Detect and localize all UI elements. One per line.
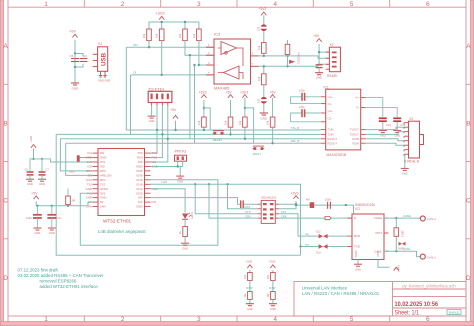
wire left riser B [60,139,92,171]
svg-text:GND: GND [86,187,92,191]
svg-text:C7: C7 [46,168,50,172]
svg-text:GND2: GND2 [100,187,108,191]
svg-text:C13: C13 [386,123,391,127]
+5V arrow (R11) [270,95,275,98]
svg-text:IO0: IO0 [138,160,143,164]
pin header TO-FTDI [148,86,172,106]
svg-text:V+: V+ [355,96,359,100]
svg-text:TX0: TX0 [152,151,158,155]
svg-text:RX2: RX2 [86,178,92,182]
pin header X2 [326,43,341,78]
svg-text:R2OUT: R2OUT [328,141,338,145]
wire R1IN to RJ45 [366,139,404,141]
svg-text:10.02.2025 10:56: 10.02.2025 10:56 [395,301,439,308]
wire IC2 vcc [296,205,354,214]
svg-text:IO5: IO5 [87,165,92,169]
wire isolator vcc [279,201,296,209]
svg-text:SJ2: SJ2 [257,98,261,103]
svg-text:RXD: RXD [354,234,360,238]
driver triangle [221,42,237,55]
svg-text:C6: C6 [25,168,29,172]
svg-text:TX2: TX2 [100,182,106,186]
svg-text:EN: EN [100,151,104,155]
svg-text:GND: GND [260,117,268,121]
svg-text:GND: GND [247,307,253,311]
resistor R9 [230,100,232,117]
pushbutton S2 [253,146,265,156]
svg-text:GND: GND [27,182,33,186]
receiver triangle [224,66,240,79]
svg-text:IO2: IO2 [152,200,157,204]
svg-text:LnB diameter angepasst: LnB diameter angepasst [98,229,146,234]
TVS D2 [298,230,348,239]
frame column ticks bottom [8,316,466,322]
svg-text:10k: 10k [257,76,261,81]
svg-text:RX0: RX0 [137,156,143,160]
pin stubs IC3 [206,47,259,75]
svg-text:IO35: IO35 [136,191,143,195]
svg-text:X2: X2 [330,43,334,47]
ground (LED) [181,243,189,245]
svg-text:+3V3: +3V3 [397,265,401,272]
svg-text:EN: EN [88,174,92,178]
svg-text:+5V: +5V [69,30,76,34]
frame row labels [3,43,471,282]
wire DE net [195,41,215,144]
ground (IC2) [354,260,362,272]
svg-text:GND: GND [177,179,183,183]
resistor R6 (B bias) [262,74,267,85]
svg-text:IO12: IO12 [136,187,143,191]
IC module U1 WT32-ETH01 [86,149,159,224]
svg-text:D: D [354,216,356,220]
ground (col1) [246,304,254,306]
svg-text:LAN: LAN [86,205,92,209]
svg-text:+5V: +5V [170,108,177,112]
svg-text:C1-: C1- [328,102,333,106]
wire CAN rx drop [209,184,258,218]
svg-text:RS485: RS485 [327,74,337,78]
svg-text:GND: GND [402,172,408,176]
svg-text:SL2: SL2 [316,230,321,234]
svg-text:IC3: IC3 [214,32,221,37]
svg-text:+5V: +5V [270,91,277,95]
svg-text:100n: 100n [69,170,75,173]
svg-text:CANH: CANH [403,214,411,218]
capacitor C7 [38,159,49,186]
svg-text:X1: X1 [98,42,102,46]
resistor R8 [203,100,205,117]
svg-text:120Ohm: 120Ohm [296,52,300,64]
svg-text:07.12.2023 first draft: 07.12.2023 first draft [18,268,59,273]
wire bus RXD [66,142,321,144]
resistor R17 [248,292,253,300]
wire CANL [384,251,420,256]
svg-text:DI: DI [134,71,137,75]
op-amp IC1 MAX3232 [321,85,366,157]
wire R2IN to RJ45 [366,143,404,145]
svg-text:100n: 100n [299,89,305,93]
svg-text:IO15: IO15 [244,205,251,209]
svg-text:LAN: LAN [162,180,167,184]
svg-text:+3V3: +3V3 [156,12,165,16]
svg-text:+3V3: +3V3 [29,135,33,142]
svg-text:C2-: C2- [328,117,333,121]
svg-text:IO39: IO39 [136,169,143,173]
resistor R11 [272,98,274,117]
wire FTDI pin3 drop [151,106,163,158]
svg-text:+3V3: +3V3 [240,91,248,95]
wire bus RX0 [56,133,321,135]
svg-text:IO0: IO0 [152,160,157,164]
svg-text:3: 3 [197,316,201,323]
svg-text:C5: C5 [70,54,74,58]
svg-text:T1OUT: T1OUT [350,128,359,132]
wire DI net [131,41,215,75]
ground (B bias) [260,113,268,115]
terminal CAN-1 [420,254,436,259]
resistor R10 [244,98,246,117]
svg-text:10k: 10k [192,33,196,38]
svg-text:BOOT: BOOT [253,152,261,156]
resistor R16 [248,273,253,281]
wire FTDI gnd [151,106,153,116]
svg-text:removed ESP8266: removed ESP8266 [40,279,77,284]
svg-text:TX2: TX2 [87,182,93,186]
svg-text:WT32-ETH01: WT32-ETH01 [103,219,132,224]
svg-text:+5V: +5V [313,34,320,38]
svg-text:IO15: IO15 [136,178,143,182]
solder jumper SJ2 [257,97,268,104]
svg-text:100u: 100u [26,216,32,220]
+5V arrow (R9) [228,95,233,98]
svg-text:T2OUT: T2OUT [350,133,359,137]
svg-text:added WT32-ETH01 interface: added WT32-ETH01 interface [40,284,99,289]
capacitor C1 electrolytic [26,206,42,235]
TVS D4 [398,242,406,251]
resistor R2 [159,29,164,41]
wire LED net [151,189,186,213]
USB connector X1 [93,42,108,71]
svg-text:GND: GND [39,182,45,186]
svg-text:3: 3 [197,1,201,8]
pushbutton S1 [213,131,225,142]
svg-text:03.02.2025 added RS485 + CAN T: 03.02.2025 added RS485 + CAN Tranceiver [18,273,105,278]
svg-text:D: D [3,275,8,282]
svg-text:Sheet: 1/1: Sheet: 1/1 [395,310,420,317]
svg-text:100n: 100n [325,198,331,202]
svg-text:CRX: CRX [281,214,287,218]
svg-text:V-: V- [356,106,359,110]
svg-text:1: 1 [44,1,48,8]
svg-text:ICSP: ICSP [269,286,276,290]
frame left outer bar [1,0,4,326]
solder jumper SJ1 [257,24,268,31]
wire IO4 [151,198,258,205]
svg-text:GND: GND [72,87,80,91]
svg-text:LED1: LED1 [190,212,194,219]
svg-text:R1OUT: R1OUT [328,137,338,141]
capacitor C12 (V+) [366,98,392,138]
svg-text:GND: GND [136,205,142,209]
USB shield pins [99,71,107,77]
svg-text:10k: 10k [257,45,261,50]
svg-text:C15: C15 [400,123,405,127]
capacitor C9 [316,65,323,68]
capacitor C10 (C1 pump) [291,89,321,104]
svg-text:10k: 10k [142,33,146,38]
svg-text:RESET: RESET [213,138,223,142]
capacitor C2 electrolytic [47,206,61,235]
svg-text:4k7: 4k7 [306,198,311,202]
frame column ticks top [8,0,466,7]
op-amp IC3 MAX485 [206,32,259,91]
+3V3 arrow (col2) [269,259,276,272]
+5V supply arrow (USB) [72,34,77,37]
svg-text:GND: GND [100,196,106,200]
wire FTDI pin2 drop [151,106,158,153]
wire CAN tx/rx right [279,214,352,236]
svg-text:C: C [466,198,471,205]
resistor R19 [271,292,276,300]
svg-text:IO1: IO1 [87,151,92,155]
svg-text:+3V3: +3V3 [291,192,299,196]
svg-text:RX0: RX0 [152,156,158,160]
+3V3 arrow (caps rail) [31,145,36,148]
svg-text:R2IN: R2IN [353,141,359,145]
IC5 isolator [244,196,279,224]
capacitor C5 [71,59,79,62]
svg-text:0R: 0R [72,199,75,203]
svg-text:VPLT: VPLT [375,231,382,235]
svg-text:GND: GND [35,231,41,235]
wire left riser A [56,134,300,255]
revision notes [18,268,105,290]
svg-text:+3V3: +3V3 [269,259,276,263]
svg-text:+3V3: +3V3 [199,91,207,95]
pin header PROG [175,149,187,167]
+5V arrow (power) [34,196,39,199]
TVS D3 [299,242,347,255]
svg-text:EAGLE: EAGLE [449,311,459,315]
net flag (CAN D) [325,217,331,220]
svg-text:PROG: PROG [175,149,187,154]
ground (X2) [315,73,323,75]
svg-text:IC2: IC2 [355,207,360,211]
resistor R1 [147,29,152,41]
svg-text:R1IN: R1IN [353,137,359,141]
resistor R5 (A bias) [262,43,267,54]
frame bottom outer bar [1,322,474,326]
wire CANH [384,217,420,219]
capacitor C13 (V-) [366,108,406,138]
svg-text:D: D [466,275,471,282]
svg-text:B: B [466,120,470,127]
svg-text:5: 5 [350,316,354,323]
svg-text:GND: GND [149,119,155,123]
svg-text:3V3: 3V3 [100,191,106,195]
svg-text:ARE_EN: ARE_EN [100,174,112,178]
svg-text:SL3: SL3 [316,250,321,254]
svg-text:120R: 120R [401,231,405,237]
svg-text:DP0: DP0 [100,169,106,173]
wire X2 vcc [319,44,329,64]
wire LAN net [151,184,301,246]
capacitor C14 [241,200,244,208]
svg-text:B: B [3,120,7,127]
svg-text:10k: 10k [266,120,270,125]
+3V3 arrow (R10) [242,95,247,98]
svg-text:ADUM1201: ADUM1201 [261,196,277,200]
ground (RJ45) [401,168,409,170]
svg-text:+3V3: +3V3 [258,7,266,11]
svg-text:+5V: +5V [226,91,233,95]
svg-text:1: 1 [44,316,48,323]
+5V arrow (X2) [317,39,322,42]
wire +3V3 rail [149,22,199,29]
ground (USB filter) [71,83,79,85]
ground (PROG) [176,176,184,178]
svg-text:CTX: CTX [245,210,251,214]
wire left riser C [66,143,93,175]
svg-text:6: 6 [426,316,430,323]
svg-text:GND: GND [316,76,322,80]
ground (col2) [269,304,277,306]
svg-text:10k: 10k [178,33,182,38]
svg-text:CRX: CRX [245,214,251,218]
svg-text:10k: 10k [197,120,201,125]
svg-text:T1IN: T1IN [328,128,334,132]
svg-text:10u: 10u [57,216,62,220]
+3V3 arrow (A bias) [261,12,266,15]
wire T1OUT to RJ45 [366,127,404,129]
IC2 SN65HVD230 [348,203,389,260]
svg-text:2: 2 [121,1,125,8]
svg-text:GND: GND [49,231,55,235]
resistor R14 (series) [310,202,315,208]
svg-text:GND: GND [86,196,92,200]
svg-text:IO17: IO17 [86,169,93,173]
svg-text:CAN-2: CAN-2 [427,217,436,221]
wire bias A [263,15,265,42]
ground (FTDI) [148,116,156,118]
+5V arrow (FTDI) [173,115,178,118]
+3V3 arrow right (IC2 RS) [378,260,401,273]
svg-text:10k: 10k [224,120,228,125]
svg-text:CANH: CANH [374,216,382,220]
svg-text:+5V: +5V [31,192,38,196]
resistor R12 [184,219,186,226]
svg-text:CTX: CTX [281,210,287,214]
wire isolator vcc drop [228,184,258,209]
wire B to gnd [263,85,265,113]
wire RE net [185,41,214,139]
capacitor C15 [328,202,331,209]
TITLE BLOCK [294,282,466,317]
wire module loop [80,180,218,245]
wire A line [259,53,330,58]
resistor R15 (CAN term) [394,218,405,251]
svg-text:+3V3: +3V3 [246,259,253,263]
wire module gnd row [151,167,183,176]
svg-text:A: A [466,43,471,50]
svg-text:TO-FTDI: TO-FTDI [148,86,164,91]
svg-text:C1+: C1+ [328,95,334,99]
svg-text:10k: 10k [155,33,159,38]
svg-text:100n: 100n [299,105,305,109]
svg-text:USB: USB [101,52,108,66]
frame row ticks [4,84,471,239]
svg-text:4: 4 [273,316,277,323]
wire cap branch [75,54,83,68]
frame right outer bar [471,0,474,326]
wire USB D- [130,75,132,134]
terminal CAN-2 [420,216,436,221]
LED1 [182,212,194,220]
svg-text:CAN-1: CAN-1 [427,255,436,259]
resistor R4 [197,29,202,41]
junction [74,52,76,54]
wire 5V rail [36,201,92,206]
wire B line [259,64,330,74]
svg-text:TXL_B: TXL_B [291,126,299,130]
svg-text:TX0: TX0 [137,151,143,155]
svg-text:GND: GND [136,165,142,169]
svg-text:MAX3232DB: MAX3232DB [327,153,347,157]
diode D1 (tvs A/B) [290,60,295,63]
svg-text:wrx: wrx [305,242,310,246]
wire bus TX0 [126,129,320,131]
+3V3 supply arrow (pullups) [159,16,164,19]
svg-text:C: C [3,198,8,205]
svg-text:5V: 5V [100,200,104,204]
svg-text:RX2: RX2 [100,178,106,182]
wire CAN tx drop [195,184,257,214]
resistor R3 [183,29,188,41]
svg-text:GND: GND [355,267,361,271]
wire USB D+ [125,47,127,130]
svg-text:py_konnect_ethinterface.sch: py_konnect_ethinterface.sch [402,284,456,289]
resistor R13 (feed) [66,189,76,206]
+3V3 arrow (R8) [201,95,206,98]
svg-text:X3: X3 [409,117,413,121]
svg-text:T2IN: T2IN [328,133,334,137]
svg-text:10k: 10k [238,120,242,125]
svg-text:C2+: C2+ [328,109,334,113]
svg-text:LAN: LAN [100,205,106,209]
svg-text:RXL_B: RXL_B [291,139,299,143]
capacitor C11 (C2 pump) [291,105,321,122]
wire RJ45 gnd [404,154,406,168]
wire T2OUT to RJ45 [366,132,404,135]
svg-text:RJ45-8L-B: RJ45-8L-B [404,160,419,164]
svg-text:SMAJ: SMAJ [398,248,405,251]
svg-text:GND: GND [354,251,358,257]
svg-text:5: 5 [350,1,354,8]
svg-text:GND: GND [182,246,188,250]
wire bus TXD [60,138,320,140]
capacitor C6 [25,159,93,186]
capacitor C4 [80,59,88,62]
svg-text:SJ1: SJ1 [257,26,261,31]
svg-text:VCC: VCC [376,251,380,257]
wire +5V down [74,40,76,83]
capacitor C8 (module) [69,155,93,173]
connector X3 RJ45 [404,117,424,164]
svg-text:IO4: IO4 [138,196,143,200]
svg-text:IO5: IO5 [100,165,105,169]
svg-text:GND GND: GND GND [98,79,110,83]
